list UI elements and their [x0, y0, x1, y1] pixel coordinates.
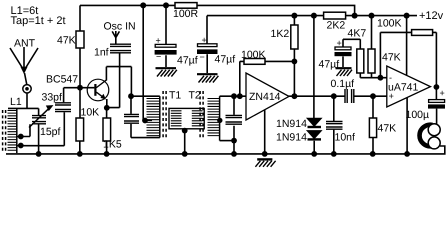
svg-text:1N914: 1N914 [276, 131, 307, 143]
antenna jack [23, 85, 31, 93]
svg-text:-: - [389, 72, 392, 82]
svg-text:ZN414: ZN414 [249, 91, 281, 103]
svg-text:2K2: 2K2 [327, 19, 346, 31]
node 15pf arrowhead [45, 104, 53, 112]
resistor R 4K7 body and leads [359, 39, 361, 77]
wire 47K to base node to 10K [79, 48, 81, 118]
svg-text:BC547: BC547 [46, 74, 78, 86]
resistor R 100K feedback ZN414 [240, 61, 295, 96]
transformer T1 primary winding [159, 96, 161, 137]
wire transformer centre drop to ground rail [184, 129, 186, 154]
svg-text:+12v: +12v [419, 10, 444, 22]
wire 1K5 to ground rail [106, 141, 108, 154]
svg-text:1K5: 1K5 [103, 139, 122, 151]
resistor R 100K feedback body [412, 30, 433, 36]
wire ZN414 output row [289, 95, 345, 97]
node output junction [434, 84, 440, 90]
transformer T2 primary winding [192, 111, 203, 126]
svg-text:−: − [200, 52, 205, 62]
node Osc IN arrow [112, 31, 119, 44]
node transformer mid junction [182, 128, 188, 134]
wire oscillator supply line from top rail to T1 tap [143, 5, 152, 120]
svg-text:+: + [440, 88, 445, 98]
svg-text:1nf: 1nf [94, 46, 109, 58]
node -input junction [378, 75, 384, 81]
node ZN414 input junctions [231, 93, 237, 99]
capacitor 15pf variable [38, 108, 40, 115]
svg-text:10nf: 10nf [335, 131, 356, 143]
wire ZN414 ground pin to rail [264, 110, 266, 154]
speaker LS [420, 125, 433, 147]
svg-text:15pf: 15pf [40, 126, 61, 138]
node +input junction [370, 93, 376, 99]
wire L1 top horizontal [8, 107, 39, 109]
capacitor C 47uf electrolytic no1 [165, 5, 167, 67]
svg-text:L1: L1 [10, 96, 22, 108]
diode D2 1N914 [308, 131, 322, 139]
wire jack to L1 top [26, 93, 28, 108]
svg-text:+: + [337, 38, 342, 48]
svg-text:+: + [156, 35, 161, 45]
node ground rail junctions [36, 151, 42, 157]
ground under 47uf no3 [336, 68, 353, 76]
wire 0.1uf to op-amp + input [355, 95, 387, 97]
resistor R 1K2 body and leads [293, 16, 295, 97]
resistor R 47K to +input ground [372, 96, 374, 154]
wire feedback loop 100K [380, 32, 436, 87]
svg-text:47K: 47K [57, 34, 76, 46]
transformer T1 core [163, 91, 166, 139]
svg-text:47µf: 47µf [215, 53, 236, 65]
wire diode chain from rail2 [313, 16, 315, 154]
wire osc coupling to emitter [107, 53, 120, 107]
diode D1 1N914 [308, 119, 322, 127]
L1 ferrite core dashes [3, 110, 6, 152]
svg-text:Osc IN: Osc IN [104, 20, 136, 32]
svg-text:T2: T2 [189, 90, 201, 102]
svg-text:33pf: 33pf [42, 91, 63, 103]
svg-text:Tap=1t + 2t: Tap=1t + 2t [11, 15, 66, 27]
wire inverting input node [360, 77, 387, 79]
svg-text:ANT: ANT [14, 37, 36, 49]
node antenna jack inner [25, 87, 29, 91]
svg-text:100µ: 100µ [406, 109, 430, 121]
svg-text:47µf: 47µf [319, 59, 340, 71]
op-amp U ZN414 [246, 73, 289, 120]
inductor L1 [16, 108, 18, 153]
node L1 tap dots [18, 134, 24, 140]
node emitter junction [104, 105, 110, 111]
capacitor C 47uf electrolytic no2 [206, 54, 208, 73]
svg-text:47K: 47K [378, 123, 397, 135]
capacitor C 100u electrolytic [429, 100, 445, 103]
resistor R 47K top-left body [76, 31, 84, 48]
wire 47K drop from top rail [79, 5, 81, 31]
svg-text:47K: 47K [382, 51, 401, 63]
svg-text:4K7: 4K7 [348, 28, 367, 40]
node T2sec bottom junction [231, 138, 237, 144]
wire rail2 (2K2 / +12v row) [207, 15, 417, 17]
node L1 tap 1 wire [17, 124, 30, 136]
transformer T2 core [200, 91, 203, 139]
wire output to 100uF [435, 87, 437, 99]
node collector junction [128, 93, 134, 99]
capacitor C 1nf osc input [110, 44, 131, 53]
op-amp U uA741 [387, 66, 431, 107]
wire 10K to ground rail [79, 141, 81, 154]
svg-text:0.1µf: 0.1µf [331, 78, 355, 90]
wire ground rail bottom [6, 146, 445, 154]
ground centre bottom rail [255, 159, 275, 166]
wire base of BC547 [64, 87, 95, 89]
svg-text:47µf: 47µf [177, 54, 198, 66]
transformer T1 secondary winding [169, 108, 204, 128]
antenna ANT symbol [10, 47, 38, 85]
svg-text:1N914: 1N914 [276, 118, 307, 130]
node 10nf junction [331, 93, 337, 99]
node T1 tap junction [142, 118, 148, 124]
capacitor C 47uf electrolytic near 4K7 [343, 39, 360, 67]
svg-text:100K: 100K [377, 18, 402, 30]
capacitor C osc feedback [131, 96, 160, 137]
node base junction [77, 85, 83, 91]
wire collector of BC547 [106, 67, 131, 97]
capacitor C 0.1uf [345, 89, 354, 103]
svg-text:+: + [389, 91, 394, 101]
svg-text:10K: 10K [81, 107, 100, 119]
svg-text:T1: T1 [169, 90, 181, 102]
wire op-amp V+ supply [406, 16, 408, 76]
wire emitter of BC547 [106, 99, 108, 118]
svg-text:−: − [156, 52, 161, 62]
wire rail2 corner down to decoupling cap [206, 16, 208, 44]
node ANT arrowhead [20, 67, 27, 74]
wire top +12v rail [80, 5, 355, 15]
transistor Q BC547 [87, 79, 109, 101]
node ZN414 output junctions [292, 93, 298, 99]
wire T2 secondary top to ZN414 input [220, 95, 247, 97]
ground under 47uf no2 [197, 74, 218, 82]
resistor R 47K bias body and leads [371, 16, 373, 78]
node L1 tap 2 wire [17, 145, 65, 147]
svg-text:100K: 100K [241, 49, 266, 61]
capacitor C 33pf [63, 88, 66, 146]
resistor R 100R body [175, 3, 197, 9]
capacitor C at ZN414 input [233, 96, 235, 154]
node top rail junctions [140, 2, 146, 8]
wire collector to T1 primary top [131, 95, 160, 97]
node rail2 junctions [291, 13, 297, 19]
resistor R 2K2 body [324, 12, 346, 19]
resistor R 10K body [76, 118, 84, 141]
ground under 47uf no1 [156, 68, 177, 76]
svg-text:100R: 100R [173, 8, 199, 20]
svg-text:+: + [202, 35, 207, 45]
wire op-amp V- to ground rail [406, 98, 408, 154]
wire T2 secondary bottom [220, 140, 234, 142]
resistor R 1K5 body [103, 118, 111, 141]
node T2 tap junction [217, 118, 222, 123]
capacitor C 10nf [333, 96, 335, 154]
transformer T2 secondary winding [219, 96, 221, 140]
svg-text:1K2: 1K2 [271, 28, 290, 40]
node emitter arrowhead BC547 [100, 94, 106, 100]
